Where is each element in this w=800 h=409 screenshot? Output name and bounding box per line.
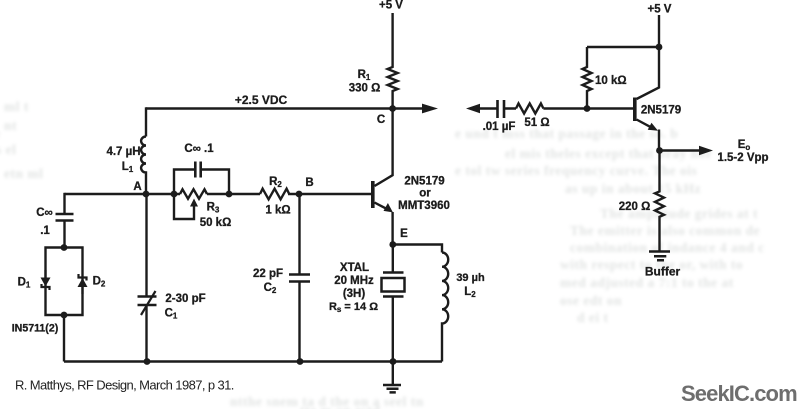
arrowhead output Eo	[699, 146, 713, 156]
inductor L2	[442, 253, 448, 362]
svg-text:L2: L2	[464, 286, 476, 299]
transistor Q2 base bar	[633, 98, 637, 122]
wire bottom rail	[64, 360, 442, 362]
crystal XTAL plates	[383, 273, 404, 297]
node R3 left	[171, 191, 178, 198]
transistor Q2 collector	[637, 47, 660, 99]
node C	[389, 105, 396, 112]
svg-text:220 Ω: 220 Ω	[619, 201, 651, 213]
power +5V lead (buffer)	[658, 15, 660, 47]
svg-text:Buffer: Buffer	[645, 265, 681, 279]
capacitor C1 2-30pF variable	[138, 297, 157, 306]
wire emitter output	[660, 149, 701, 151]
node R3 right	[226, 191, 233, 198]
svg-text:C∞ .1: C∞ .1	[184, 143, 214, 155]
capacitor C-inf .1 (left)	[56, 214, 74, 221]
resistor 51 ohm	[516, 104, 543, 114]
transistor Q1 emitter	[375, 203, 393, 245]
svg-text:Rs = 14 Ω: Rs = 14 Ω	[329, 301, 378, 314]
svg-text:A: A	[133, 181, 141, 193]
svg-text:22 pF: 22 pF	[253, 268, 283, 280]
svg-text:1 kΩ: 1 kΩ	[265, 205, 290, 217]
svg-text:.01 µF: .01 µF	[483, 121, 516, 133]
capacitor C-inf .1 (across R3)	[174, 170, 229, 195]
svg-text:D2: D2	[93, 276, 106, 289]
svg-text:+5 V: +5 V	[379, 0, 403, 12]
resistor R1	[388, 62, 398, 109]
node bottom rail left	[144, 358, 151, 365]
wire diode box to bottom rail	[63, 315, 65, 362]
svg-text:50 kΩ: 50 kΩ	[200, 217, 232, 229]
svg-text:C1: C1	[165, 308, 178, 321]
inductor L1	[141, 137, 146, 195]
svg-text:20 MHz: 20 MHz	[334, 275, 374, 287]
svg-text:or: or	[419, 188, 431, 200]
svg-text:2N5179: 2N5179	[641, 105, 681, 117]
svg-text:R1: R1	[358, 69, 371, 82]
svg-text:SeekIC.com: SeekIC.com	[681, 381, 797, 406]
wire node B down to C2	[298, 194, 300, 274]
svg-text:R. Matthys, RF Design, March 1: R. Matthys, RF Design, March 1987, p 31.	[15, 378, 234, 393]
svg-text:C: C	[377, 114, 385, 126]
svg-text:IN5711(2): IN5711(2)	[12, 323, 59, 335]
crystal XTAL box	[382, 278, 405, 292]
transistor Q1 base bar	[371, 181, 375, 208]
transistor Q2 emitter	[637, 120, 660, 151]
svg-text:.1: .1	[40, 225, 50, 237]
node B	[296, 191, 303, 198]
svg-text:330 Ω: 330 Ω	[349, 83, 381, 95]
diode D1 schottky bar	[42, 270, 50, 290]
svg-text:D1: D1	[18, 277, 31, 290]
node diode box top	[61, 244, 68, 251]
svg-text:+2.5 VDC: +2.5 VDC	[235, 93, 288, 107]
resistor 220 ohm	[655, 151, 664, 252]
svg-text:(3H): (3H)	[343, 288, 366, 300]
svg-text:2-30 pF: 2-30 pF	[165, 293, 205, 305]
arrowhead R3 wiper	[190, 199, 198, 207]
node buffer top	[656, 44, 663, 51]
svg-text:+5 V: +5 V	[648, 4, 672, 16]
wire +2.5 VDC rail	[146, 107, 424, 109]
node buffer emitter	[656, 147, 663, 154]
R3 wiper loop and arrow	[174, 194, 194, 219]
wire left branch down	[63, 193, 65, 214]
diode D2	[78, 278, 88, 287]
wire buffer input	[478, 107, 516, 109]
wire 51 ohm to base	[543, 107, 633, 109]
svg-text:L1: L1	[122, 161, 134, 174]
svg-text:C2: C2	[264, 282, 277, 295]
node bottom rail mid	[297, 358, 304, 365]
svg-text:10 kΩ: 10 kΩ	[595, 75, 627, 87]
crystal XTAL leads	[392, 245, 394, 362]
node A	[143, 191, 150, 198]
svg-text:R3: R3	[207, 202, 220, 215]
potentiometer R3	[180, 189, 207, 198]
diode pair box IN5711(2)	[46, 248, 83, 316]
wire E rail to L2	[393, 245, 442, 253]
power +5V lead (left oscillator)	[391, 13, 393, 62]
ground (oscillator) stem	[392, 362, 394, 385]
ground (oscillator) bars	[383, 385, 401, 392]
svg-text:39 µh: 39 µh	[456, 272, 485, 284]
svg-text:XTAL: XTAL	[340, 262, 369, 274]
svg-text:2N5179: 2N5179	[404, 176, 444, 188]
transistor Q1 collector	[375, 109, 393, 187]
svg-text:C∞: C∞	[36, 207, 53, 219]
diode D2 schottky bar	[79, 274, 87, 294]
svg-text:1.5-2 Vpp: 1.5-2 Vpp	[717, 152, 768, 164]
svg-text:E: E	[400, 228, 408, 240]
arrowhead Q1 emitter	[384, 203, 393, 212]
node buffer base	[584, 105, 591, 112]
svg-text:Eo: Eo	[738, 139, 751, 152]
diode D1	[41, 278, 51, 287]
node E	[389, 241, 396, 248]
svg-text:4.7 µH: 4.7 µH	[106, 146, 140, 158]
arrowhead +2.5VDC rail	[422, 104, 438, 114]
svg-text:51 Ω: 51 Ω	[524, 117, 549, 129]
node bottom rail right	[390, 358, 397, 365]
svg-text:MMT3960: MMT3960	[398, 200, 450, 212]
wire node A down to C1	[145, 194, 147, 296]
svg-text:B: B	[305, 177, 313, 189]
node diode box bottom	[61, 312, 68, 319]
resistor R2	[260, 189, 289, 200]
svg-text:R2: R2	[269, 176, 282, 189]
ground (buffer) bars	[649, 252, 670, 261]
wire main node-A line	[65, 193, 372, 195]
arrowhead buffer input (left)	[466, 104, 480, 114]
wire buffer top rail	[587, 46, 659, 48]
wire rail corner down to L1	[145, 107, 147, 136]
faint print bleed-through from reverse page	[455, 126, 678, 142]
capacitor C2 22pF	[289, 275, 310, 282]
capacitor .01uF	[498, 100, 505, 118]
resistor 10k	[583, 47, 592, 109]
arrowhead Q2 emitter	[648, 123, 658, 131]
